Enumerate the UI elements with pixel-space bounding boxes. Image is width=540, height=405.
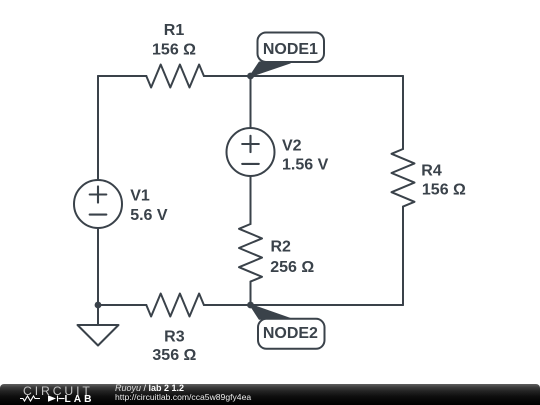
svg-text:NODE1: NODE1 xyxy=(263,41,318,58)
svg-text:156 Ω: 156 Ω xyxy=(152,41,196,58)
svg-text:V2: V2 xyxy=(282,138,302,155)
svg-text:R2: R2 xyxy=(271,239,292,256)
svg-text:LAB: LAB xyxy=(65,394,95,405)
svg-text:5.6 V: 5.6 V xyxy=(130,207,168,224)
svg-text:V1: V1 xyxy=(130,188,150,205)
svg-text:NODE2: NODE2 xyxy=(263,325,318,342)
svg-text:356 Ω: 356 Ω xyxy=(152,347,196,364)
svg-text:156 Ω: 156 Ω xyxy=(422,181,466,198)
svg-text:256 Ω: 256 Ω xyxy=(270,259,314,276)
svg-text:R4: R4 xyxy=(421,162,442,179)
svg-text:1.56 V: 1.56 V xyxy=(282,156,329,173)
svg-text:R3: R3 xyxy=(164,328,185,345)
svg-text:R1: R1 xyxy=(164,22,185,39)
